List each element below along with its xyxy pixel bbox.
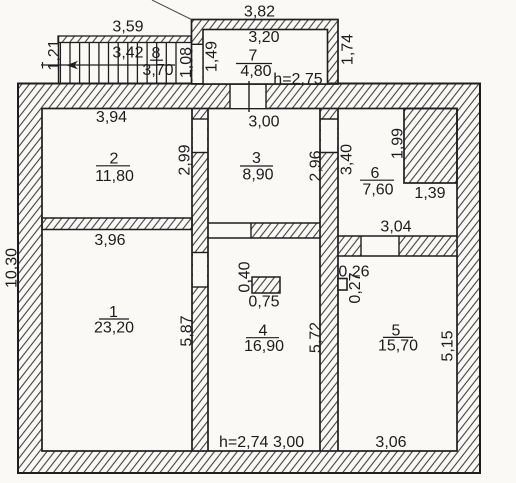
svg-text:2,99: 2,99 <box>177 144 194 175</box>
svg-text:10,30: 10,30 <box>3 248 20 288</box>
svg-text:2,96: 2,96 <box>307 150 324 181</box>
svg-text:23,20: 23,20 <box>94 320 134 337</box>
svg-text:3,00: 3,00 <box>273 434 304 451</box>
hatched block in room 6 <box>404 109 457 184</box>
hatched stove box room 4 <box>252 277 280 293</box>
svg-text:1,49: 1,49 <box>203 41 220 72</box>
svg-text:3,70: 3,70 <box>142 62 173 79</box>
svg-text:0,75: 0,75 <box>248 294 279 311</box>
svg-text:15,70: 15,70 <box>378 338 418 355</box>
room 1 label <box>94 304 134 337</box>
outer wall <box>18 84 480 474</box>
svg-text:7,60: 7,60 <box>362 182 393 199</box>
svg-text:11,80: 11,80 <box>95 168 134 185</box>
room 7 label <box>236 48 272 80</box>
porch (room 7) walls <box>192 20 339 85</box>
svg-text:3,82: 3,82 <box>244 4 275 21</box>
room 6 label <box>360 165 394 199</box>
leader tick for 0,40 <box>248 280 253 282</box>
svg-text:1,99: 1,99 <box>389 128 406 159</box>
svg-text:4: 4 <box>259 323 268 340</box>
svg-text:3: 3 <box>252 150 261 167</box>
svg-text:1,21: 1,21 <box>46 39 63 70</box>
svg-text:4,80: 4,80 <box>240 63 271 80</box>
svg-text:h=2,74: h=2,74 <box>219 434 268 451</box>
wall between rooms 3/6 and 4/5 (vertical) <box>320 109 338 452</box>
door room7-room3 <box>230 81 266 112</box>
diagonal leader line top <box>152 0 192 20</box>
svg-text:0,40: 0,40 <box>237 261 254 292</box>
door room2-room3 jambs <box>192 119 208 153</box>
svg-text:1,39: 1,39 <box>414 185 445 202</box>
staircase direction arrow <box>41 61 175 70</box>
door room3-room6 jambs <box>320 119 338 153</box>
svg-text:5,72: 5,72 <box>308 322 325 353</box>
svg-text:2: 2 <box>110 151 119 168</box>
svg-text:0,27: 0,27 <box>347 272 364 303</box>
small open box room 5 <box>338 279 347 291</box>
svg-text:3,42: 3,42 <box>112 44 143 61</box>
svg-text:5,87: 5,87 <box>178 315 195 346</box>
room 3 label <box>240 150 274 183</box>
staircase top wall strip <box>58 36 191 43</box>
svg-text:3,40: 3,40 <box>339 144 356 175</box>
svg-text:3,96: 3,96 <box>94 232 125 249</box>
svg-text:6: 6 <box>371 165 380 182</box>
room 5 label <box>378 323 418 355</box>
svg-text:3,04: 3,04 <box>380 219 411 236</box>
wall between rooms 1 and 2 (thin horizontal) <box>42 218 192 230</box>
svg-text:3,06: 3,06 <box>375 434 406 451</box>
staircase treads <box>60 43 176 84</box>
svg-text:8,90: 8,90 <box>242 166 273 183</box>
svg-text:3,20: 3,20 <box>248 29 279 46</box>
svg-text:3,00: 3,00 <box>248 114 279 131</box>
room 2 label <box>95 151 134 186</box>
building interior <box>42 109 457 452</box>
svg-text:16,90: 16,90 <box>244 338 284 355</box>
svg-text:1,74: 1,74 <box>340 34 357 65</box>
wall between rooms 2/3 and 1/4 (vertical) <box>192 109 208 452</box>
wall between rooms 6 and 5 (horizontal) <box>338 236 457 256</box>
svg-text:3,94: 3,94 <box>96 109 127 126</box>
wall between rooms 3 and 4 (horizontal) <box>208 223 320 238</box>
staircase left edge <box>58 36 60 84</box>
svg-text:1,08: 1,08 <box>178 47 195 78</box>
svg-text:3,59: 3,59 <box>112 19 143 36</box>
svg-text:5,15: 5,15 <box>440 330 457 361</box>
room 4 label <box>244 323 284 356</box>
room 8 number <box>150 45 163 62</box>
svg-text:h=2,75: h=2,75 <box>273 71 322 88</box>
door room1-room4 jambs <box>192 253 208 288</box>
